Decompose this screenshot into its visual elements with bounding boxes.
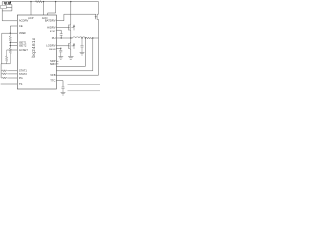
ground REGN [58, 57, 63, 60]
wire SRP [56, 38, 85, 66]
resistor R ISET bottom [9, 48, 11, 64]
resistor R STAT2 [1, 73, 8, 75]
wire ACP [30, 2, 32, 15]
wire VREF [2, 32, 17, 34]
transistor Q3 HIDRV [67, 24, 75, 30]
svg-text:ACSET: ACSET [19, 48, 28, 52]
pin stub SRP [56, 60, 58, 62]
node SRP tap [85, 37, 86, 38]
wire STAT2 [8, 73, 17, 75]
wire REGN [56, 48, 60, 50]
node BTST PH [61, 37, 62, 38]
node output cap [81, 37, 82, 38]
node REGN corner [60, 48, 61, 49]
capacitor REGN [59, 50, 62, 56]
svg-text:TS: TS [19, 82, 23, 86]
svg-text:REGN: REGN [49, 49, 56, 51]
ground Q4 [68, 56, 73, 59]
svg-text:LODRV: LODRV [46, 44, 55, 48]
svg-text:PG: PG [19, 76, 23, 80]
wire PH / inductor line [56, 37, 98, 39]
node VREF rail [10, 33, 11, 34]
wire CE [10, 26, 17, 33]
resistor RAC sense [36, 1, 43, 3]
wire Q4 source [70, 49, 72, 56]
svg-text:ISET2: ISET2 [19, 44, 27, 48]
wire battery minus [68, 90, 101, 92]
IC pin labels [19, 16, 56, 86]
wire ACSET [7, 49, 18, 51]
resistor RSR sense [86, 37, 91, 39]
wire ISET2 [10, 45, 17, 47]
wire VFB [56, 74, 98, 76]
op-amp U1 bq2461x IC body [17, 15, 56, 89]
wire SRN [56, 38, 92, 71]
resistor R PG [1, 77, 8, 79]
svg-text:BTST: BTST [50, 31, 56, 33]
node ISET1 [10, 42, 11, 43]
capacitor output [81, 38, 84, 52]
capacitor BTST [60, 34, 63, 38]
node VCC [55, 1, 56, 2]
ground TTC [61, 92, 66, 95]
resistor R ACSET [6, 50, 8, 64]
wire adapter to rail [1, 2, 3, 6]
wire TS [1, 83, 18, 85]
wire left rail [0, 33, 3, 78]
wire rail A mid [9, 43, 11, 48]
wire top adapter rail [2, 1, 98, 3]
wire PG [8, 77, 17, 79]
node ISET2 [10, 45, 11, 46]
svg-text:bq2461x: bq2461x [31, 37, 36, 57]
svg-text:HIDRV: HIDRV [47, 25, 56, 29]
wire BATDRV gate [56, 14, 95, 21]
node SRN tap [92, 37, 93, 38]
wire gate bus [5, 4, 12, 6]
node ACN [43, 1, 44, 2]
wire VCC [48, 2, 56, 15]
svg-text:VFB: VFB [50, 73, 55, 77]
wire gate pulldown [6, 5, 12, 11]
wire Q4 drain [70, 38, 72, 43]
wire LODRV gate [56, 45, 68, 47]
svg-text:CE: CE [19, 24, 23, 28]
svg-text:SRN: SRN [50, 62, 56, 66]
node PH [70, 37, 71, 38]
svg-text:VREF: VREF [19, 31, 27, 35]
wire hiside drain [70, 2, 72, 25]
svg-text:BATDRV: BATDRV [45, 19, 56, 23]
wire battery rail [98, 19, 100, 75]
transistor Q2 ACFET [8, 1, 11, 4]
wire ACDRV net [2, 9, 17, 21]
pin stub SRN [56, 63, 58, 65]
wire STAT1 [8, 70, 17, 72]
svg-text:ACDRV: ACDRV [19, 19, 29, 23]
wire Q3 source to PH [70, 31, 72, 38]
node input [70, 1, 71, 2]
wire battery plus [68, 84, 101, 86]
svg-text:ACP: ACP [28, 16, 34, 20]
node ACP [30, 1, 31, 2]
svg-text:STAT2: STAT2 [19, 72, 27, 76]
wire ACN [43, 2, 45, 15]
wire HIDRV [56, 27, 68, 29]
wire divider bottoms [1, 63, 10, 65]
wire ISET1 [10, 42, 17, 44]
capacitor TTC [62, 87, 65, 92]
wire BTST [56, 30, 61, 33]
inductor L1 [73, 37, 86, 38]
svg-text:TTC: TTC [50, 79, 55, 83]
transistor Q4 LODRV [69, 43, 75, 49]
transistor Q5 BATFET [95, 2, 99, 20]
svg-text:PH: PH [52, 36, 56, 40]
resistor R ISET1 top [9, 33, 11, 42]
resistor R STAT1 [1, 70, 8, 72]
wire TTC [56, 81, 63, 87]
transistor Q1 ACFET [4, 2, 7, 5]
ground output cap [80, 52, 85, 55]
adapter input box [1, 5, 7, 8]
